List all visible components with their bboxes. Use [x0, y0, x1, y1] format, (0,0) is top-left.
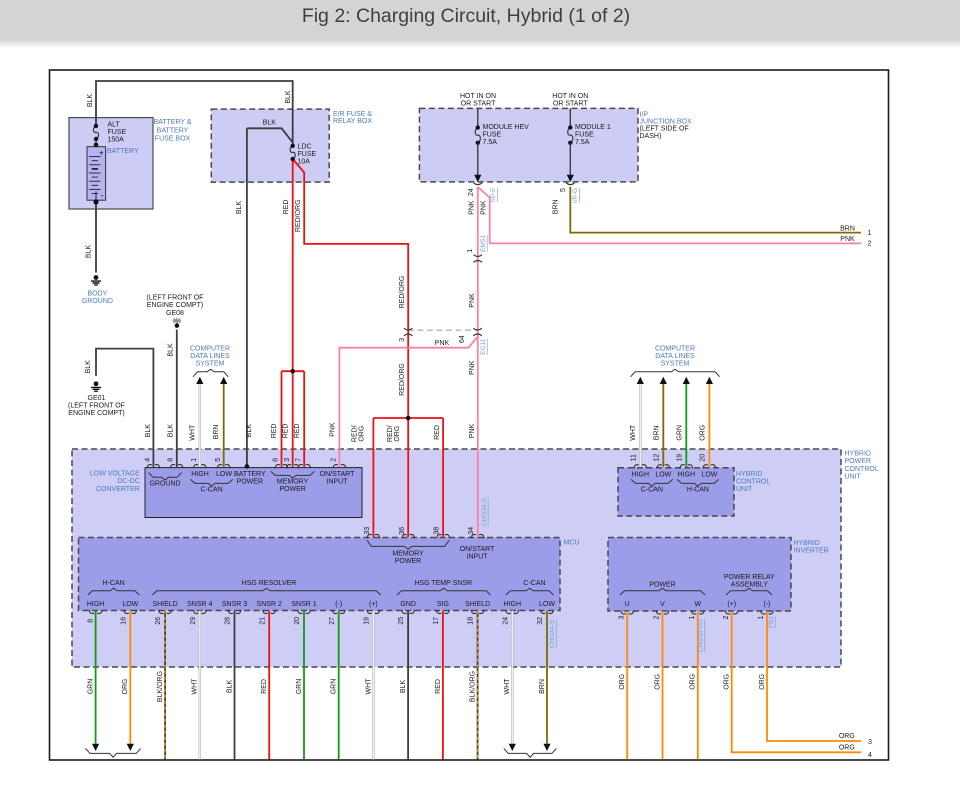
- svg-text:3: 3: [868, 739, 872, 746]
- wire ORG relay (-) to right edge: [767, 611, 861, 741]
- label MEMORY POWER mcu: [392, 551, 424, 566]
- svg-text:DATA LINES: DATA LINES: [655, 353, 695, 360]
- wire RED/ORG to MCU pin 33: [372, 418, 374, 537]
- brace computer data lines left: [193, 369, 228, 377]
- wire fuse module HEV out: [477, 143, 479, 175]
- svg-text:C-CAN: C-CAN: [641, 487, 663, 494]
- svg-text:BLK: BLK: [168, 343, 175, 357]
- brace C-CAN hcu: [631, 479, 673, 486]
- svg-text:ORG: ORG: [839, 744, 855, 751]
- connector DC-DC pin 7: [298, 465, 311, 469]
- ground GE08 star symbol: [172, 318, 181, 328]
- svg-text:DC-DC: DC-DC: [117, 478, 140, 485]
- svg-text:BATTERY: BATTERY: [157, 127, 189, 134]
- svg-text:HIGH: HIGH: [678, 471, 696, 478]
- svg-text:W: W: [694, 601, 701, 608]
- wire RED to MCU pin 38: [442, 418, 444, 537]
- I/P junction box: [419, 108, 638, 181]
- svg-text:H-CAN: H-CAN: [103, 580, 125, 587]
- connector MCU pin 20: [298, 610, 311, 614]
- label COMPUTER DATA LINES SYSTEM left: [190, 345, 230, 367]
- svg-text:UNIT: UNIT: [736, 486, 753, 493]
- wire WHT MCU pin 29: [199, 611, 201, 760]
- connector MCU pin 34: [471, 534, 484, 538]
- svg-text:HIGH: HIGH: [504, 601, 522, 608]
- wire RED LDC to junction: [292, 159, 294, 371]
- fuse MODULE HEV 7.5A: [475, 125, 480, 145]
- svg-text:RED: RED: [435, 679, 442, 694]
- label COMPUTER DATA LINES SYSTEM right: [655, 345, 695, 367]
- svg-text:RED: RED: [271, 424, 278, 439]
- svg-text:BRN: BRN: [539, 679, 546, 694]
- battery & battery fuse box: [69, 118, 153, 209]
- svg-text:EC11: EC11: [480, 339, 487, 355]
- svg-text:PNK: PNK: [469, 423, 476, 438]
- svg-text:ON/START: ON/START: [460, 546, 495, 553]
- svg-text:2: 2: [331, 458, 338, 462]
- wire RED/ORG to MCU pin 36: [407, 418, 409, 537]
- wire fuse module HEV: [477, 108, 479, 127]
- connector MCU pin 28: [228, 610, 241, 614]
- svg-text:SIG: SIG: [437, 601, 449, 608]
- svg-text:ORG: ORG: [724, 674, 731, 690]
- label LOW VOLTAGE DC-DC CONVERTER: [90, 471, 140, 493]
- svg-text:HIGH: HIGH: [632, 471, 650, 478]
- wire BLK GE08 to pin 8: [176, 330, 178, 467]
- svg-text:29: 29: [190, 617, 197, 625]
- svg-text:BLK: BLK: [86, 245, 93, 259]
- svg-text:PNK: PNK: [469, 293, 476, 308]
- svg-text:6: 6: [273, 458, 280, 462]
- connector DC-DC pin 8: [170, 465, 183, 469]
- svg-text:ORG: ORG: [759, 674, 766, 690]
- svg-text:HOT IN ON: HOT IN ON: [460, 93, 496, 100]
- wire BLK E/R to battery power: [246, 128, 248, 466]
- svg-text:ORG: ORG: [394, 426, 401, 442]
- wire GRN HCU H-CAN high: [685, 384, 687, 467]
- svg-text:Fig 2: Charging Circuit, Hybri: Fig 2: Charging Circuit, Hybrid (1 of 2): [302, 5, 630, 27]
- title bar: [0, 0, 960, 40]
- wire ORG inverter V: [662, 611, 664, 759]
- svg-text:BATTERY &: BATTERY &: [153, 119, 191, 126]
- svg-text:BATTERY: BATTERY: [234, 471, 266, 478]
- svg-text:LOW: LOW: [701, 471, 717, 478]
- svg-text:PNK: PNK: [840, 236, 855, 243]
- brace GROUND pins: [149, 473, 182, 480]
- arrow into I/P-G connector: [567, 175, 574, 182]
- svg-text:CHG34-S: CHG34-S: [481, 497, 488, 526]
- svg-text:5: 5: [215, 458, 222, 462]
- connector HCU pin 12: [657, 465, 670, 469]
- wire BRN MCU pin 32: [546, 611, 548, 744]
- connector MCU pin 33: [367, 534, 380, 538]
- svg-text:BODY: BODY: [87, 291, 107, 298]
- brace H-CAN off page: [86, 748, 141, 757]
- svg-text:FUSE BOX: FUSE BOX: [155, 135, 191, 142]
- connector MCU pin 16: [124, 610, 137, 614]
- svg-text:JUNCTION BOX: JUNCTION BOX: [640, 119, 692, 126]
- svg-text:ORG: ORG: [654, 674, 661, 690]
- connector inverter pin 2: [656, 610, 669, 614]
- svg-text:BLK: BLK: [246, 424, 253, 438]
- connector DC-DC pin 5: [217, 465, 230, 469]
- fuse ALT 150A: [93, 124, 98, 141]
- label GE08: [147, 295, 204, 317]
- junction battery top terminal: [94, 143, 99, 148]
- svg-text:GE01: GE01: [88, 395, 106, 402]
- svg-text:HYBRID: HYBRID: [736, 471, 762, 478]
- connector inverter pin 3: [621, 610, 634, 614]
- svg-text:POWER: POWER: [845, 458, 871, 465]
- svg-text:8: 8: [87, 619, 94, 623]
- svg-text:GND: GND: [400, 601, 416, 608]
- arrow GRN HCU to data lines: [683, 377, 690, 384]
- svg-text:64: 64: [459, 335, 466, 343]
- wire ORG relay (+) to right edge: [732, 611, 861, 752]
- label ON/START INPUT dcdc: [320, 471, 355, 486]
- svg-text:33: 33: [364, 527, 371, 535]
- svg-text:CHG34-S: CHG34-S: [549, 619, 556, 648]
- svg-text:RED: RED: [434, 425, 441, 440]
- connector I/P-E: [474, 183, 483, 185]
- label BATTERY & BATTERY FUSE BOX: [153, 119, 191, 142]
- svg-text:BLK: BLK: [263, 120, 277, 127]
- brace HSG RESOLVER: [152, 588, 380, 595]
- wire BLK MCU pin 25: [407, 611, 409, 760]
- connector inverter pin 1: [692, 610, 705, 614]
- svg-text:SHIELD: SHIELD: [465, 601, 490, 608]
- label BODY GROUND: [82, 291, 113, 306]
- label ON/START INPUT mcu: [460, 546, 495, 561]
- svg-text:CONTROL: CONTROL: [736, 478, 770, 485]
- svg-text:C-CAN: C-CAN: [523, 580, 545, 587]
- svg-text:SYSTEM: SYSTEM: [661, 361, 690, 368]
- hybrid power control unit box: [72, 449, 841, 667]
- svg-text:25: 25: [398, 617, 405, 625]
- svg-text:(-): (-): [335, 601, 342, 608]
- wire GRN MCU pin 27: [338, 611, 340, 760]
- svg-text:ORG: ORG: [699, 425, 706, 441]
- label MODULE 1 fuse: [575, 124, 611, 146]
- wire BRN C-CAN low: [223, 384, 225, 467]
- svg-text:ENGINE COMPT): ENGINE COMPT): [147, 302, 203, 309]
- svg-text:(LEFT FRONT OF: (LEFT FRONT OF: [68, 403, 125, 410]
- svg-text:4: 4: [145, 458, 152, 462]
- svg-text:ORG: ORG: [359, 426, 366, 442]
- wire BLK MCU pin 28: [234, 611, 236, 760]
- svg-text:PNK: PNK: [469, 200, 476, 215]
- svg-text:LOW VOLTAGE: LOW VOLTAGE: [90, 471, 140, 478]
- svg-text:WHT: WHT: [189, 424, 196, 441]
- connector inverter pin 2: [725, 610, 738, 614]
- svg-text:EM51: EM51: [480, 235, 487, 252]
- svg-text:BLK: BLK: [400, 680, 407, 694]
- connector DC-DC pin 3: [286, 465, 299, 469]
- svg-text:I/P-G: I/P-G: [572, 188, 579, 203]
- svg-text:BRN: BRN: [552, 199, 559, 214]
- connector MCU pin 21: [263, 610, 276, 614]
- connector inverter pin 1: [761, 610, 774, 614]
- svg-text:HYBRID: HYBRID: [845, 451, 871, 458]
- svg-text:5: 5: [560, 188, 567, 192]
- svg-text:INVERTER: INVERTER: [794, 548, 829, 555]
- wire BLK battery to LDC fuse: [96, 81, 293, 146]
- svg-text:1: 1: [868, 230, 872, 237]
- wire RED to pin 6: [281, 371, 283, 467]
- svg-text:BLK: BLK: [87, 94, 94, 108]
- svg-text:RED: RED: [283, 200, 290, 215]
- svg-text:WHT: WHT: [630, 424, 637, 441]
- wire BRN fuse 5 to right edge: [570, 187, 861, 233]
- svg-text:COMPUTER: COMPUTER: [655, 345, 695, 352]
- svg-text:WHT: WHT: [192, 678, 199, 695]
- svg-text:GROUND: GROUND: [149, 480, 180, 487]
- svg-text:27: 27: [329, 617, 336, 625]
- svg-text:FB1: FB1: [768, 616, 775, 628]
- label RED/ORG mcu33: [352, 425, 366, 442]
- svg-text:12: 12: [654, 454, 661, 462]
- svg-text:BLK: BLK: [145, 424, 152, 438]
- brace MEMORY POWER mcu: [367, 540, 449, 549]
- wire RED junction bar: [282, 370, 305, 372]
- label LDC fuse: [298, 144, 317, 166]
- svg-text:8: 8: [168, 458, 175, 462]
- svg-text:RELAY BOX: RELAY BOX: [333, 118, 372, 125]
- label E/R FUSE & RELAY BOX: [333, 111, 372, 125]
- fuse LDC 10A: [290, 144, 295, 162]
- svg-text:DASH): DASH): [640, 133, 662, 140]
- svg-text:ALT: ALT: [108, 122, 121, 129]
- svg-text:MODULE HEV: MODULE HEV: [483, 124, 530, 131]
- connector DC-DC pin 2: [333, 465, 346, 469]
- wire GRN MCU pin 8: [95, 611, 97, 744]
- svg-text:+: +: [99, 148, 104, 157]
- svg-text:FUSE: FUSE: [575, 132, 594, 139]
- svg-text:(LEFT SIDE OF: (LEFT SIDE OF: [640, 126, 689, 133]
- svg-text:HSG TEMP SNSR: HSG TEMP SNSR: [414, 580, 472, 587]
- connector MCU pin 36: [402, 534, 415, 538]
- brace C-CAN dcdc: [191, 479, 233, 486]
- svg-text:RED: RED: [294, 424, 301, 439]
- wire BLK battery to body ground: [95, 200, 97, 272]
- wire WHT MCU pin 24: [511, 611, 513, 744]
- arrow ORG off page: [127, 744, 134, 751]
- junction RED: [290, 369, 295, 374]
- connector MCU pin 8: [89, 610, 102, 614]
- connector DC-DC pin 6: [275, 465, 288, 469]
- brace POWER inverter: [620, 588, 705, 595]
- connector HCU pin 11: [634, 465, 647, 469]
- connector I/P-G: [566, 183, 575, 185]
- svg-text:1: 1: [758, 615, 765, 619]
- connector MCU pin 19: [367, 610, 380, 614]
- label HYBRID POWER CONTROL UNIT: [845, 451, 879, 481]
- connector MCU pin 32: [541, 610, 554, 614]
- label BATTERY POWER: [234, 471, 266, 486]
- title bar shadow: [0, 40, 960, 48]
- svg-text:PNK: PNK: [330, 422, 337, 437]
- svg-text:20: 20: [700, 454, 707, 462]
- label GE01: [68, 395, 125, 417]
- svg-text:BLK: BLK: [167, 424, 174, 438]
- svg-text:MEMORY: MEMORY: [277, 478, 309, 485]
- svg-text:PNK: PNK: [481, 200, 488, 215]
- svg-text:11: 11: [631, 454, 638, 461]
- brace H-CAN hcu: [677, 479, 719, 486]
- svg-text:10A: 10A: [298, 159, 311, 166]
- svg-text:POWER: POWER: [649, 581, 675, 588]
- svg-text:WHT: WHT: [504, 678, 511, 695]
- svg-text:MEMORY: MEMORY: [392, 551, 424, 558]
- svg-text:OR START: OR START: [461, 101, 496, 108]
- svg-text:GRN: GRN: [296, 679, 303, 695]
- svg-text:21: 21: [259, 617, 266, 625]
- svg-text:C-CAN: C-CAN: [201, 487, 223, 494]
- arrow BRN to data lines: [220, 377, 227, 384]
- label ALT fuse: [108, 122, 127, 144]
- brace POWER RELAY ASSEMBLY: [726, 588, 772, 595]
- svg-text:17: 17: [433, 617, 440, 625]
- svg-text:LDC: LDC: [298, 144, 312, 151]
- arrow WHT off page: [509, 744, 516, 751]
- wire BLK fuse to battery: [95, 139, 97, 156]
- svg-text:SNSR 4: SNSR 4: [187, 601, 212, 608]
- wire GRN MCU pin 20: [303, 611, 305, 760]
- svg-text:3: 3: [284, 458, 291, 462]
- svg-text:WHT: WHT: [365, 678, 372, 695]
- body ground symbol: [91, 275, 101, 285]
- connector MCU pin 25: [402, 610, 415, 614]
- svg-text:INPUT: INPUT: [467, 554, 489, 561]
- svg-text:34: 34: [468, 527, 475, 535]
- MCU box: [79, 538, 561, 611]
- svg-text:CONVERTER: CONVERTER: [96, 486, 140, 493]
- svg-text:CHG34-SG: CHG34-SG: [697, 619, 704, 652]
- wire fuse module 1 out: [569, 143, 571, 175]
- svg-text:4: 4: [868, 752, 872, 759]
- wire RED MCU pin 17: [442, 611, 444, 760]
- wire ORG inverter U: [626, 611, 628, 759]
- svg-text:2: 2: [868, 241, 872, 248]
- svg-text:SNSR 3: SNSR 3: [222, 601, 247, 608]
- svg-text:LOW: LOW: [655, 471, 671, 478]
- svg-text:RED/ORG: RED/ORG: [399, 276, 406, 309]
- wire WHT C-CAN high: [199, 384, 201, 467]
- arrow into I/P-E connector: [474, 175, 481, 182]
- wire ORG MCU pin 16: [129, 611, 131, 744]
- arrow BRN off page: [543, 744, 550, 751]
- svg-text:UNIT: UNIT: [845, 474, 862, 481]
- connector MCU pin 24: [506, 610, 519, 614]
- svg-text:MODULE 1: MODULE 1: [575, 124, 611, 131]
- wire RED to pin 3: [292, 371, 294, 467]
- svg-text:BATTERY: BATTERY: [107, 148, 139, 155]
- svg-text:19: 19: [677, 454, 684, 462]
- label HYBRID CONTROL UNIT: [736, 471, 770, 493]
- svg-text:7: 7: [295, 458, 302, 462]
- svg-text:BLK: BLK: [236, 201, 243, 215]
- svg-text:BLK/ORG: BLK/ORG: [470, 671, 477, 702]
- svg-text:H-CAN: H-CAN: [687, 487, 709, 494]
- connector EC11 pin 64: [473, 328, 482, 336]
- svg-text:BLK: BLK: [285, 90, 292, 104]
- brace H-CAN mcu: [88, 588, 139, 595]
- svg-text:2: 2: [654, 615, 661, 619]
- svg-text:I/P: I/P: [640, 111, 649, 118]
- svg-text:ENGINE COMPT): ENGINE COMPT): [68, 410, 124, 417]
- label HOT IN ON OR START right: [552, 93, 588, 108]
- brace HSG TEMP SNSR: [397, 588, 491, 595]
- svg-text:(-): (-): [764, 601, 771, 608]
- connector MCU pin 38: [437, 534, 450, 538]
- svg-text:(+): (+): [727, 601, 736, 608]
- svg-text:PNK: PNK: [435, 340, 450, 347]
- svg-text:SNSR 1: SNSR 1: [291, 601, 316, 608]
- svg-text:POWER: POWER: [279, 486, 305, 493]
- svg-text:DATA LINES: DATA LINES: [190, 353, 230, 360]
- wire PNK EC11 to ON/START input: [339, 337, 477, 467]
- svg-text:1: 1: [689, 615, 696, 619]
- wire ORG inverter W: [697, 611, 699, 759]
- svg-text:ORG: ORG: [690, 674, 697, 690]
- svg-text:(LEFT FRONT OF: (LEFT FRONT OF: [147, 295, 204, 302]
- svg-text:RED: RED: [261, 679, 268, 694]
- junction battery negative: [93, 199, 98, 204]
- junction BLK at battery power: [245, 464, 250, 469]
- svg-text:20: 20: [294, 617, 301, 625]
- svg-text:24: 24: [502, 617, 509, 625]
- svg-text:GRN: GRN: [677, 425, 684, 441]
- svg-text:ASSEMBLY: ASSEMBLY: [731, 582, 769, 589]
- label POWER RELAY ASSEMBLY: [724, 574, 775, 589]
- connector DC-DC pin 1: [194, 465, 207, 469]
- svg-text:GROUND: GROUND: [82, 298, 113, 305]
- connector EC11 pin 3: [404, 328, 413, 336]
- svg-text:SHIELD: SHIELD: [152, 601, 177, 608]
- svg-text:GRN: GRN: [331, 679, 338, 695]
- svg-text:2: 2: [723, 615, 730, 619]
- hybrid control unit box: [618, 468, 734, 516]
- wire PNK branch to right edge: [478, 187, 861, 243]
- fuse MODULE 1 7.5A: [568, 125, 573, 145]
- connector MCU pin 17: [437, 610, 450, 614]
- svg-text:INPUT: INPUT: [327, 479, 349, 486]
- svg-text:V: V: [660, 601, 665, 608]
- svg-text:26: 26: [155, 617, 162, 625]
- svg-text:BRN: BRN: [840, 225, 855, 232]
- svg-text:MCU: MCU: [564, 540, 580, 547]
- arrow BRN HCU to data lines: [660, 377, 667, 384]
- svg-text:BLK: BLK: [85, 360, 92, 374]
- svg-text:16: 16: [120, 617, 127, 625]
- wire WHT MCU pin 19: [372, 611, 374, 760]
- svg-text:150A: 150A: [108, 137, 125, 144]
- svg-text:POWER: POWER: [395, 558, 421, 565]
- svg-text:ON/START: ON/START: [320, 471, 355, 478]
- svg-text:BLK/ORG: BLK/ORG: [157, 671, 164, 702]
- arrow WHT to data lines: [196, 377, 203, 384]
- svg-text:SNSR 2: SNSR 2: [257, 601, 282, 608]
- svg-text:3: 3: [618, 615, 625, 619]
- wire BLK E/R internal: [247, 128, 293, 142]
- label RED/ORG mcu36: [387, 425, 401, 442]
- svg-text:PNK: PNK: [469, 360, 476, 375]
- svg-text:7.5A: 7.5A: [575, 139, 590, 146]
- wire RED/ORG LDC to EC11: [293, 159, 409, 418]
- svg-text:CONTROL: CONTROL: [845, 466, 879, 473]
- svg-text:LOW: LOW: [122, 601, 138, 608]
- svg-text:POWER: POWER: [237, 479, 263, 486]
